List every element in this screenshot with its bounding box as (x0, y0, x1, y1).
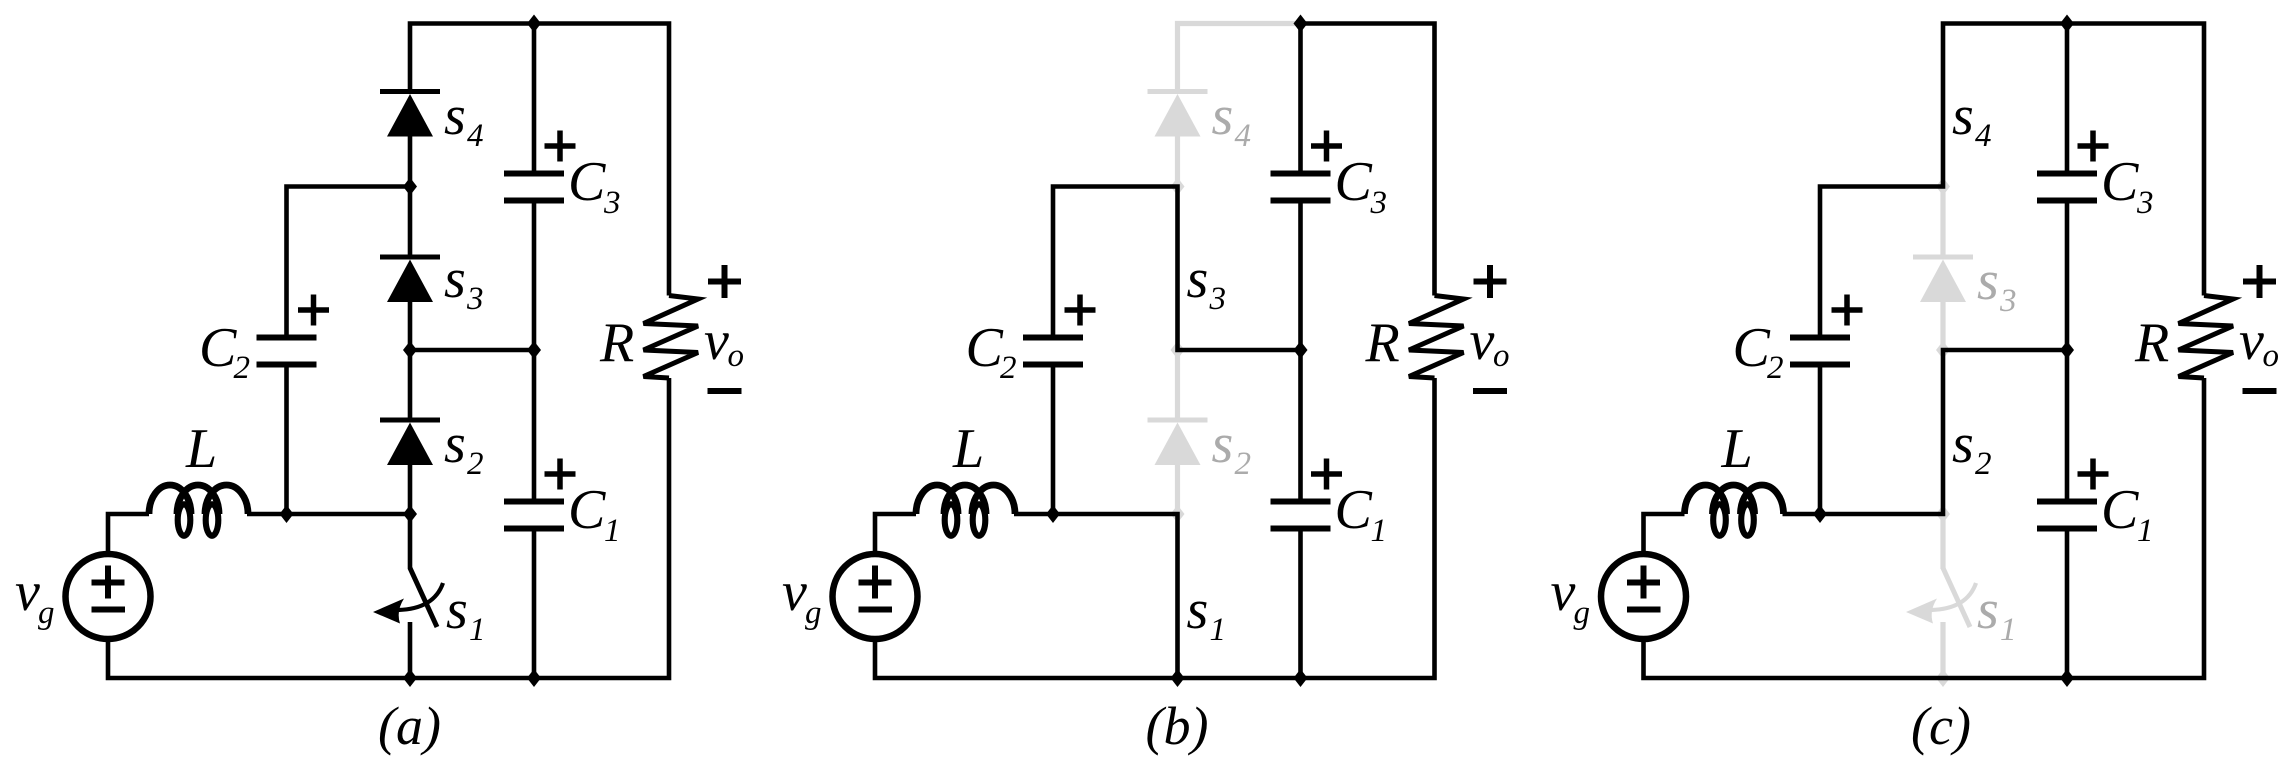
wire S4 to node (408, 135, 413, 187)
svg-text:v: v (782, 561, 807, 623)
node junction (2067,350) (2060, 341, 2074, 359)
wire C-rail top (2065, 24, 2070, 172)
capacitor C2 (257, 335, 317, 341)
svg-text:C: C (1733, 317, 1771, 379)
svg-text:v: v (1470, 310, 1495, 372)
node junction (410,678) (403, 669, 417, 687)
node junction (534,23) (527, 15, 541, 33)
node junction (534,678) (527, 669, 541, 687)
resistor R (1409, 296, 1464, 379)
svg-text:o: o (1493, 338, 1510, 374)
wire C-rail middle (532, 203, 537, 501)
svg-text:v: v (15, 561, 40, 623)
wire mid horizontal (410, 348, 534, 353)
wire source bottom, bottom rail, right rail lower (875, 378, 1435, 678)
wire black top rail and right rail (1301, 24, 1435, 296)
grey wire chain to S2 (1175, 350, 1180, 420)
capacitor C2 (1790, 335, 1850, 341)
svg-text:2: 2 (1767, 350, 1784, 386)
svg-text:s: s (444, 248, 466, 310)
plus of C2 (298, 307, 329, 313)
node junction (1300,23) (1294, 15, 1308, 33)
svg-text:C: C (2101, 479, 2139, 541)
wire C2 bottom segment (1818, 366, 1823, 514)
source Vg (833, 554, 918, 639)
wire switch top stub (408, 514, 413, 569)
plus of C2 (1065, 307, 1096, 313)
wire C2 bottom segment (284, 366, 289, 514)
svg-text:1: 1 (469, 612, 486, 648)
wire C2 bottom segment (1051, 366, 1056, 514)
wire C-rail bottom (2065, 531, 2070, 678)
capacitor C3 (504, 171, 564, 177)
node junction (1820,514) (1813, 505, 1827, 523)
grey node junction (1943,678) (1936, 669, 1950, 687)
svg-text:C: C (568, 151, 606, 213)
svg-text:1: 1 (1371, 513, 1388, 549)
node junction (1300,350) (1294, 341, 1308, 359)
svg-text:2: 2 (1235, 446, 1252, 482)
grey wire switch bottom stub (1940, 622, 1945, 678)
svg-text:C: C (1335, 151, 1373, 213)
grey node junction (1177,514) (1171, 505, 1185, 523)
plus of output (708, 279, 741, 285)
grey node junction (1943,514) (1936, 505, 1950, 523)
svg-text:s: s (1187, 248, 1209, 310)
svg-text:C: C (2101, 151, 2139, 213)
grey node junction (1943,350) (1936, 341, 1950, 359)
svg-text:4: 4 (467, 118, 484, 154)
wire inductor to chain (247, 512, 410, 517)
svg-text:s: s (444, 85, 466, 147)
diode S3 (380, 255, 440, 260)
svg-text:v: v (1551, 561, 1576, 623)
minus of output (2243, 388, 2277, 394)
node junction (410,350) (403, 341, 417, 359)
inductor L (945, 504, 958, 536)
svg-text:s: s (1212, 85, 1234, 147)
wire inductor input (108, 514, 149, 554)
svg-text:1: 1 (1210, 612, 1227, 648)
svg-text:3: 3 (1370, 185, 1388, 221)
source Vg (1601, 554, 1686, 639)
svg-text:s: s (1212, 413, 1234, 475)
svg-text:s: s (1952, 85, 1974, 147)
inductor L (178, 504, 191, 536)
capacitor C1 (1271, 499, 1331, 505)
svg-text:2: 2 (1000, 350, 1017, 386)
node junction (286,514) (280, 505, 294, 523)
node junction (1177,678) (1171, 669, 1185, 687)
inductor L (1713, 504, 1726, 536)
svg-text:s: s (444, 413, 466, 475)
plus of C1 (1311, 471, 1342, 477)
wire C-rail top (1298, 24, 1303, 172)
svg-text:g: g (805, 595, 822, 631)
svg-text:g: g (1574, 595, 1591, 631)
source Vg (66, 554, 151, 639)
svg-text:2: 2 (467, 446, 484, 482)
grey wire switch top stub (1940, 514, 1945, 569)
grey wire S2 to inductor node (1175, 463, 1180, 514)
svg-text:2: 2 (234, 350, 251, 386)
svg-text:3: 3 (603, 185, 621, 221)
wire C2 step path through closed S3 to mid node (1053, 187, 1301, 351)
wire C-rail middle (2065, 203, 2070, 501)
plus of C1 (2078, 471, 2109, 477)
wire inductor input (1644, 514, 1685, 554)
figure (c): grey wire node to S3 (1940, 187, 1945, 258)
svg-text:s: s (1977, 579, 1999, 641)
wire C-rail bottom (532, 531, 537, 678)
svg-text:v: v (2239, 310, 2264, 372)
grey node junction (1943,186) (1936, 178, 1950, 196)
wire chain to S3 (408, 187, 413, 258)
grey diode S4 (1148, 89, 1208, 94)
wire S2 to inductor node (408, 463, 413, 514)
wire inductor input (875, 514, 916, 554)
resistor R (2179, 296, 2234, 379)
grey diode S2 (1148, 418, 1208, 423)
svg-text:R: R (2134, 312, 2169, 374)
capacitor C1 (504, 499, 564, 505)
svg-text:4: 4 (1975, 118, 1992, 154)
svg-text:3: 3 (1209, 281, 1227, 317)
svg-text:1: 1 (2137, 513, 2154, 549)
svg-text:L: L (952, 418, 984, 480)
minus of output (708, 388, 742, 394)
svg-text:R: R (1365, 312, 1400, 374)
svg-text:v: v (704, 310, 729, 372)
figure (a): wire chain top + top rail + right rail (410, 24, 669, 296)
wire chain to S2 (408, 350, 413, 420)
svg-text:3: 3 (2136, 185, 2154, 221)
svg-text:1: 1 (604, 513, 621, 549)
svg-text:C: C (199, 317, 237, 379)
wire inductor to chain, closed S2 up to mid node (1783, 350, 2068, 514)
plus of C3 (1311, 143, 1342, 149)
svg-text:o: o (2263, 338, 2280, 374)
svg-text:4: 4 (1235, 118, 1252, 154)
svg-text:L: L (1721, 418, 1753, 480)
capacitor C1 (2037, 499, 2097, 505)
capacitor C2 (1023, 335, 1083, 341)
wire C-rail middle (1298, 203, 1303, 501)
svg-text:(a): (a) (378, 696, 441, 756)
svg-text:s: s (1187, 579, 1209, 641)
svg-text:2: 2 (1975, 446, 1992, 482)
grey diode S3 (1913, 255, 1973, 260)
svg-text:1: 1 (2000, 612, 2017, 648)
node junction (1053,514) (1046, 505, 1060, 523)
wire inductor to chain and closed S1 down to bottom rail (1014, 514, 1178, 678)
resistor R (644, 296, 699, 379)
svg-text:3: 3 (466, 281, 484, 317)
wire C-rail top (532, 24, 537, 172)
svg-text:s: s (446, 579, 468, 641)
diode S4 (380, 89, 440, 94)
svg-text:L: L (185, 418, 217, 480)
wire source bottom, bottom rail, right rail lower (1644, 378, 2205, 678)
diode S2 (380, 418, 440, 423)
plus of output (2243, 279, 2276, 285)
node junction (410,514) (403, 505, 417, 523)
node junction (1300,678) (1294, 669, 1308, 687)
svg-text:o: o (728, 338, 745, 374)
svg-text:C: C (568, 479, 606, 541)
wire node to C2 top (287, 187, 411, 336)
node junction (2067,678) (2060, 669, 2074, 687)
grey wire S4 to node (1175, 135, 1180, 187)
svg-text:3: 3 (1999, 283, 2017, 319)
grey switch S1 (1943, 568, 1970, 627)
svg-text:C: C (966, 317, 1004, 379)
svg-text:C: C (1335, 479, 1373, 541)
plus of C3 (2078, 143, 2109, 149)
plus of output (1474, 279, 1507, 285)
plus of C3 (545, 143, 576, 149)
switch S1 (410, 568, 437, 627)
minus of output (1473, 388, 1507, 394)
capacitor C3 (2037, 171, 2097, 177)
wire top rail with closed S4 path down to C2 (1820, 24, 2204, 336)
wire S3 to mid node (408, 300, 413, 350)
capacitor C3 (1271, 171, 1331, 177)
node junction (2067,23) (2060, 15, 2074, 33)
wire source bottom, bottom rail, right rail lower (108, 378, 669, 678)
grey node junction (1177,186) (1171, 178, 1185, 196)
wire switch bottom stub (408, 622, 413, 678)
grey wire S3 to mid node (1940, 300, 1945, 350)
svg-text:g: g (38, 595, 55, 631)
svg-text:s: s (1977, 250, 1999, 312)
svg-text:R: R (599, 312, 634, 374)
node junction (534,350) (527, 341, 541, 359)
plus of C1 (545, 471, 576, 477)
svg-text:(c): (c) (1911, 696, 1971, 756)
grey node junction (1177,350) (1171, 341, 1185, 359)
node junction (410,186) (403, 178, 417, 196)
svg-text:(b): (b) (1146, 696, 1209, 756)
plus of C2 (1832, 307, 1863, 313)
wire C-rail bottom (1298, 531, 1303, 678)
svg-text:s: s (1952, 413, 1974, 475)
figure (b): grey top rail segment and wire to S4 (1178, 24, 1301, 92)
